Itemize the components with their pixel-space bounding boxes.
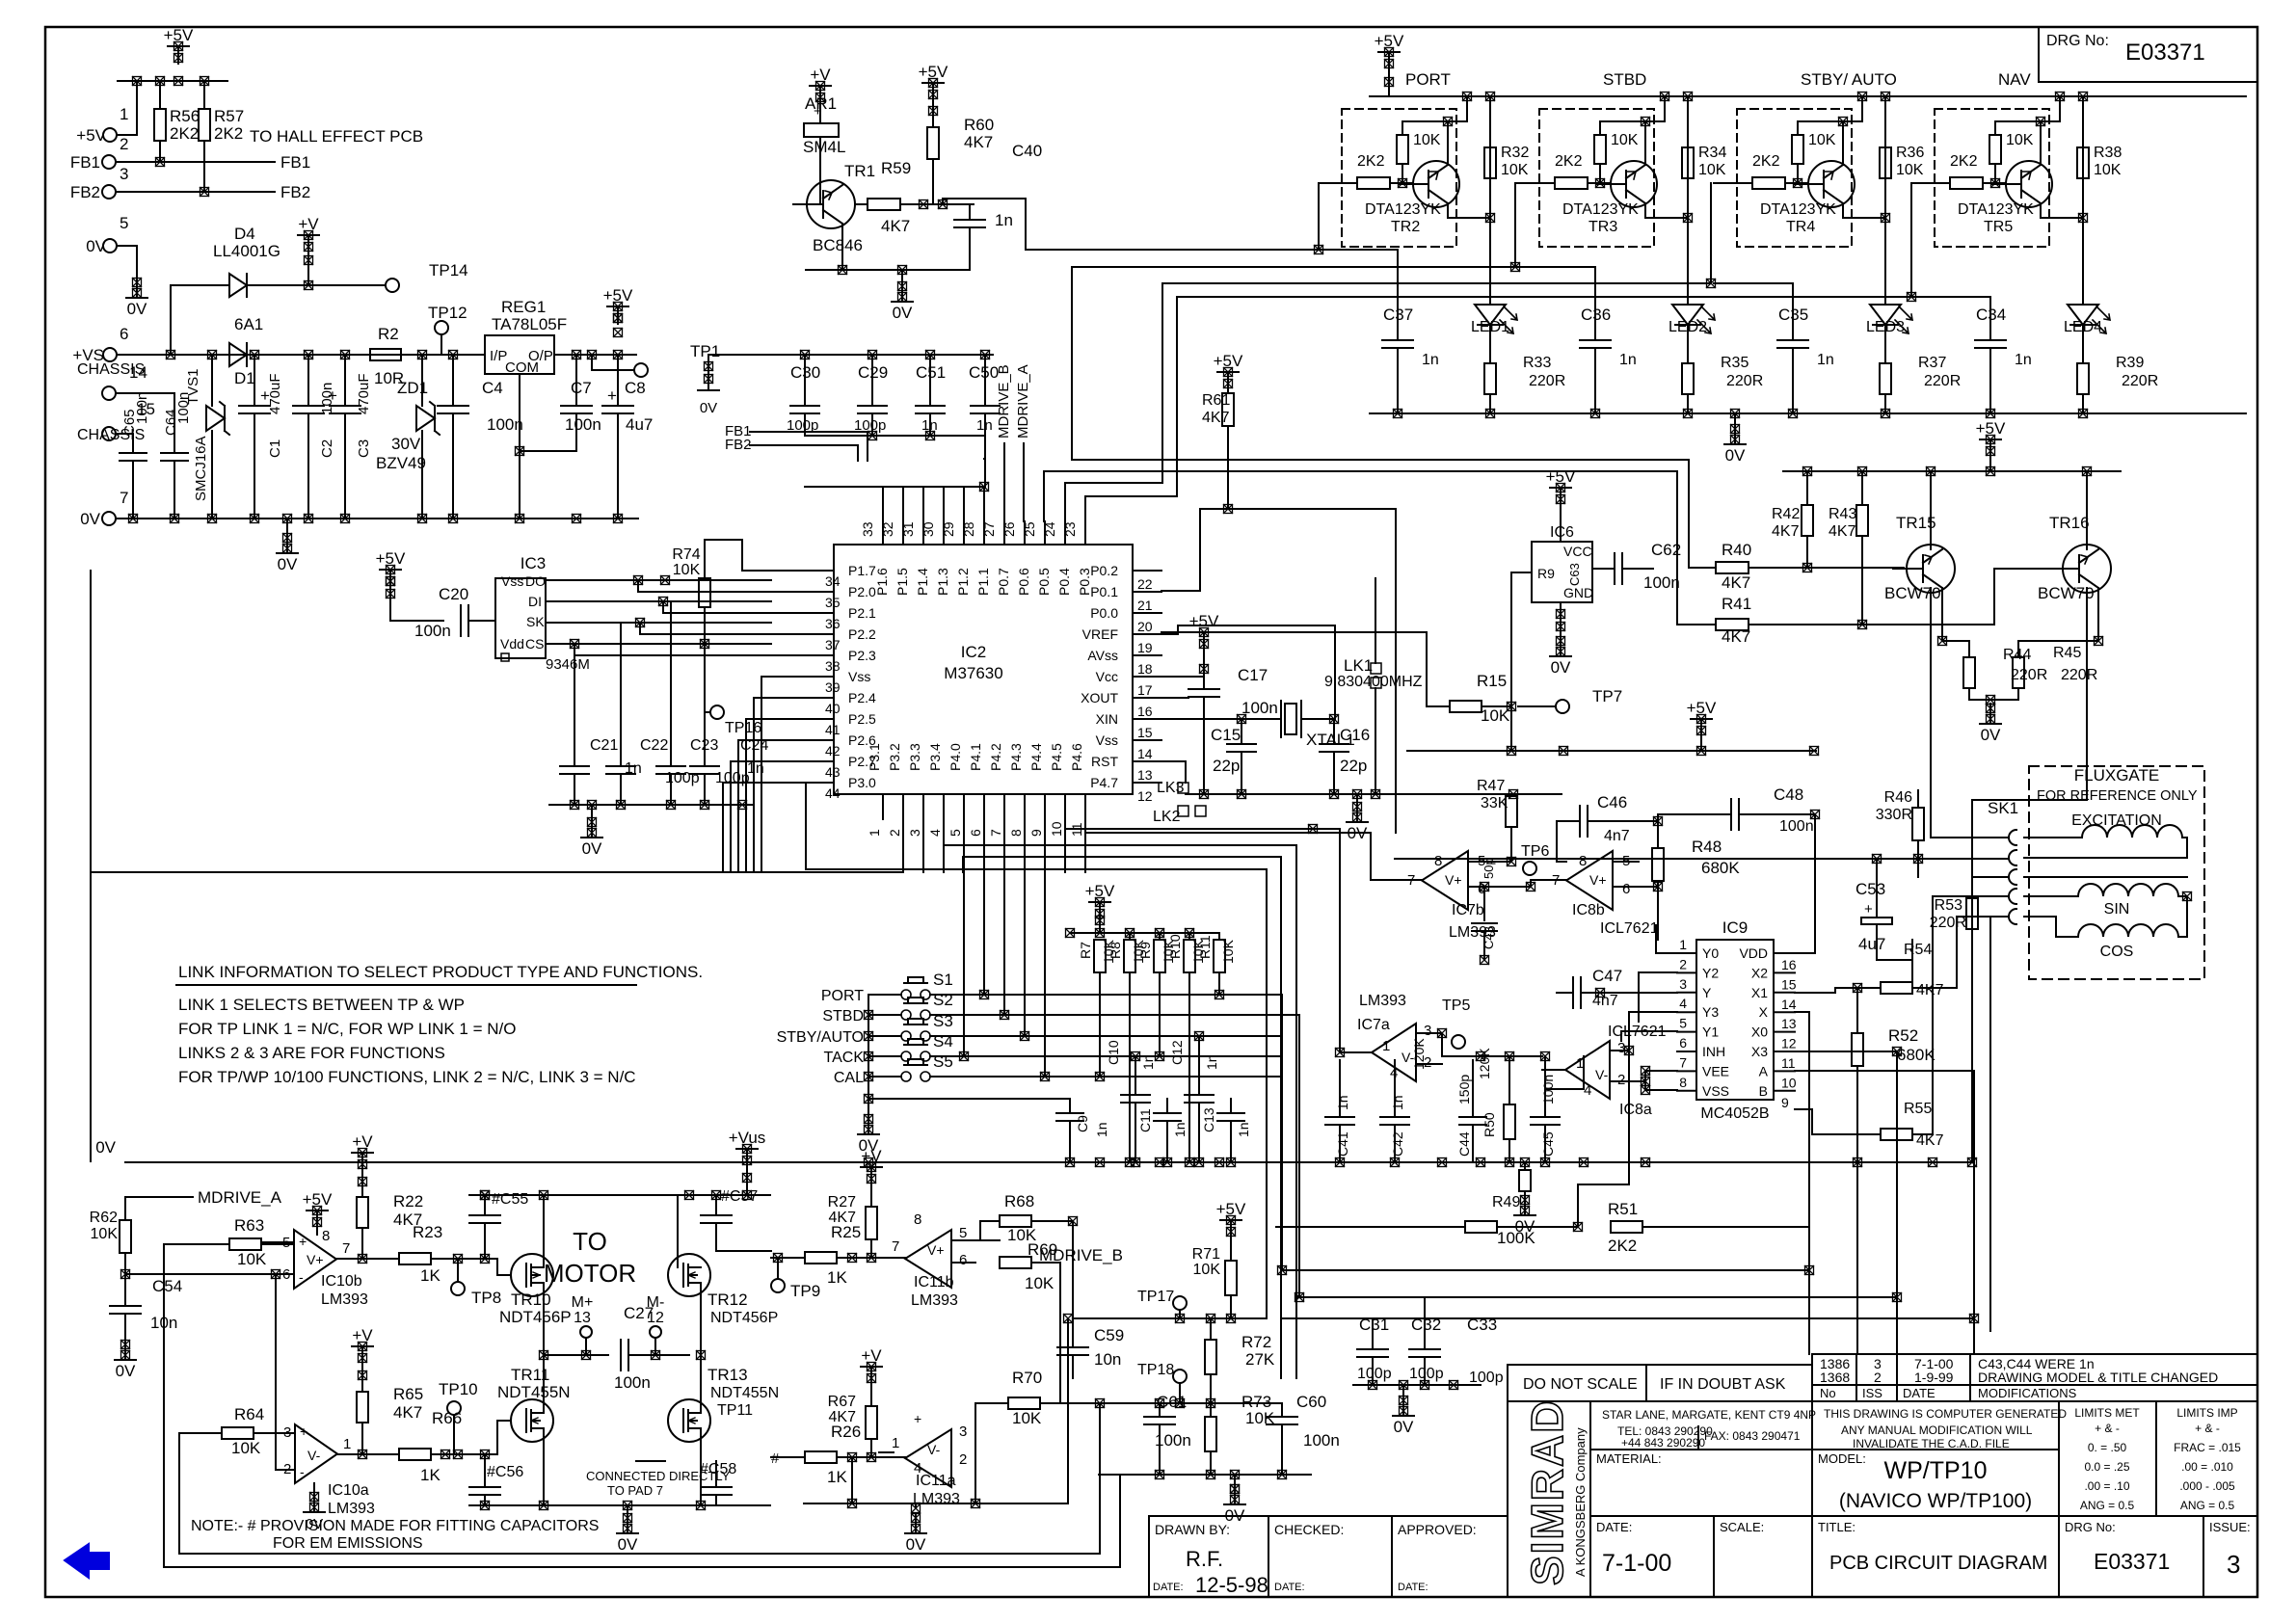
svg-text:R42: R42 (1772, 506, 1800, 522)
svg-text:.00 = .10: .00 = .10 (2084, 1479, 2129, 1493)
svg-text:1n: 1n (995, 211, 1013, 229)
svg-text:R46: R46 (1884, 789, 1912, 806)
svg-text:V-: V- (927, 1442, 941, 1457)
svg-text:C63: C63 (1567, 563, 1582, 586)
wire row to IC8a (1442, 1055, 1542, 1057)
resistor 10K base pullup TR4 (1797, 121, 1799, 135)
wire left pin routes from IC2 (705, 540, 771, 571)
pin SK1-5 (2009, 909, 2016, 924)
wire TR12 gate from right (716, 1250, 771, 1252)
svg-text:P1.4: P1.4 (915, 568, 930, 596)
svg-text:C47: C47 (1592, 967, 1622, 985)
svg-text:R2: R2 (378, 325, 399, 343)
svg-text:LM393: LM393 (1359, 993, 1406, 1009)
svg-text:33: 33 (860, 521, 875, 537)
svg-text:P4.2: P4.2 (988, 743, 1003, 771)
svg-text:#C57: #C57 (721, 1188, 758, 1205)
svg-text:SIMRAD: SIMRAD (1522, 1399, 1572, 1585)
pin 9 IC9 right (1774, 1090, 1795, 1092)
svg-text:TP11: TP11 (717, 1402, 753, 1419)
svg-text:VEE: VEE (1702, 1063, 1729, 1078)
svg-text:BC846: BC846 (813, 236, 863, 254)
wire gate TR11 (497, 1421, 511, 1454)
svg-text:10K: 10K (673, 562, 701, 578)
svg-text:TP8: TP8 (471, 1289, 501, 1307)
svg-text:M37630: M37630 (944, 664, 1002, 682)
svg-text:R8: R8 (1108, 942, 1123, 959)
svg-text:MODIFICATIONS: MODIFICATIONS (1978, 1386, 2077, 1400)
svg-text:43: 43 (825, 764, 841, 780)
wire caps to bus2 (805, 435, 985, 437)
wire trunk risers to LED drive lines (1319, 249, 1398, 251)
svg-text:4n7: 4n7 (1604, 828, 1630, 844)
svg-text:220R: 220R (2061, 667, 2097, 683)
pin 3 IC2 bottom (922, 794, 924, 819)
svg-text:NDT456P: NDT456P (710, 1310, 778, 1326)
svg-text:BCW70: BCW70 (2038, 584, 2095, 602)
svg-text:P0.6: P0.6 (1016, 568, 1031, 596)
svg-text:TO PAD 7: TO PAD 7 (607, 1483, 663, 1498)
svg-text:MODEL:: MODEL: (1818, 1451, 1866, 1466)
svg-text:R23: R23 (413, 1223, 442, 1241)
svg-text:TR12: TR12 (707, 1290, 748, 1309)
svg-text:0V: 0V (582, 839, 602, 858)
wire row S5 (868, 1076, 901, 1078)
svg-text:P0.0: P0.0 (1090, 605, 1118, 621)
svg-text:C1: C1 (267, 439, 283, 458)
svg-text:22p: 22p (1213, 757, 1240, 775)
pin 13 IC2 right (1133, 760, 1161, 762)
svg-text:V+: V+ (1589, 872, 1607, 888)
switch S4 (901, 1051, 911, 1061)
resistor 100K feedback (1465, 1221, 1497, 1233)
transistor TR11 NDT455N mosfet (511, 1399, 553, 1442)
svg-text:1K: 1K (827, 1268, 847, 1287)
svg-text:4K7: 4K7 (829, 1210, 857, 1226)
svg-text:R67: R67 (828, 1394, 856, 1410)
svg-text:+: + (300, 1423, 307, 1439)
svg-text:R50: R50 (1482, 1112, 1497, 1137)
svg-text:DATE: DATE (1903, 1386, 1936, 1400)
ground 0V below caps (591, 805, 593, 817)
svg-text:10K: 10K (2006, 132, 2034, 148)
pin 10 IC2 bottom (1064, 794, 1066, 819)
svg-text:10K: 10K (1012, 1409, 1042, 1427)
svg-text:ZD1: ZD1 (397, 379, 428, 397)
svg-text:TP6: TP6 (1521, 843, 1549, 860)
svg-text:C31: C31 (1359, 1316, 1389, 1334)
wire AVss loop over crystal (1161, 625, 1335, 719)
svg-text:1: 1 (343, 1436, 351, 1452)
svg-text:P1.5: P1.5 (894, 568, 910, 596)
svg-text:0V: 0V (1981, 726, 2001, 744)
revision table (1812, 1354, 2257, 1401)
svg-text:8: 8 (322, 1228, 330, 1244)
svg-text:C11: C11 (1137, 1108, 1153, 1132)
svg-text:1n: 1n (976, 417, 993, 434)
pin 29 IC2 top (963, 521, 965, 545)
wire from top-left corner trunk (1622, 568, 1653, 570)
svg-text:19: 19 (1137, 640, 1153, 655)
svg-text:S1: S1 (933, 971, 953, 989)
svg-text:TP7: TP7 (1592, 687, 1622, 705)
pin 33 IC2 top (882, 521, 884, 545)
svg-text:39: 39 (825, 679, 841, 695)
pin 6 IC9 left (1677, 1051, 1696, 1052)
svg-text:R59: R59 (881, 159, 911, 177)
svg-text:100n: 100n (1643, 573, 1680, 592)
switch S2 (901, 1010, 911, 1020)
svg-text:ICL7621: ICL7621 (1600, 920, 1659, 937)
svg-text:Vdd: Vdd (500, 636, 524, 652)
svg-text:IC8a: IC8a (1619, 1102, 1652, 1118)
test point TP12 (435, 321, 448, 334)
wire LED column 2 (1687, 96, 1689, 305)
svg-text:X1: X1 (1751, 985, 1768, 1000)
svg-text:DO: DO (525, 573, 546, 589)
svg-text:25: 25 (1022, 521, 1037, 537)
wire IC9 VEE VSS left (1645, 1070, 1677, 1072)
svg-text:FB2: FB2 (70, 183, 100, 201)
svg-text:7: 7 (342, 1240, 350, 1257)
svg-text:4K7: 4K7 (829, 1409, 857, 1425)
svg-text:VSS: VSS (1702, 1083, 1729, 1099)
svg-text:12: 12 (1137, 788, 1153, 804)
svg-text:100n: 100n (134, 392, 150, 424)
svg-text:FRAC = .015: FRAC = .015 (2174, 1441, 2241, 1454)
wire IC8a pins (1542, 1069, 1565, 1071)
resistor R37 220R (1884, 325, 1886, 363)
resistor R32 10K (1484, 147, 1496, 178)
test point TP9 (771, 1279, 785, 1292)
wire row 1456 (1060, 1402, 1282, 1404)
svg-text:C46: C46 (1597, 793, 1627, 811)
resistor 10K base pullup TR5 (1994, 121, 1996, 135)
svg-text:100n: 100n (565, 415, 601, 434)
svg-text:X: X (1759, 1004, 1769, 1020)
svg-text:TP14: TP14 (429, 261, 468, 279)
wire TR16 collector down (2086, 588, 2088, 800)
svg-text:C22: C22 (640, 737, 668, 754)
svg-text:18: 18 (1137, 661, 1153, 677)
ground 0V xtal (1356, 794, 1358, 802)
svg-text:330R: 330R (1876, 807, 1912, 823)
resistor R10 10K (1188, 933, 1190, 940)
svg-text:.00 = .010: .00 = .010 (2181, 1460, 2233, 1474)
svg-text:MC4052B: MC4052B (1700, 1105, 1769, 1122)
wire row S3 (868, 1035, 901, 1037)
svg-text:XIN: XIN (1096, 711, 1118, 727)
svg-text:0V: 0V (116, 1362, 136, 1380)
wire LED column 4 (2082, 96, 2084, 305)
svg-text:2K2: 2K2 (1608, 1237, 1637, 1255)
svg-text:C23: C23 (690, 737, 718, 754)
svg-text:10K: 10K (1896, 162, 1924, 178)
svg-text:2K2: 2K2 (1555, 153, 1583, 170)
wire IC8b pins (1531, 879, 1566, 881)
svg-text:8: 8 (1579, 853, 1587, 869)
svg-text:1n: 1n (1619, 352, 1637, 368)
svg-text:TR5: TR5 (1984, 219, 2013, 235)
svg-text:C4: C4 (482, 379, 503, 397)
svg-text:SK1: SK1 (1988, 799, 2018, 817)
wire LED top rail (1370, 95, 2246, 97)
resistor R53 220R (1966, 898, 1978, 929)
svg-text:17: 17 (1137, 682, 1153, 698)
wire opamp +5V rail (1407, 750, 1816, 752)
svg-text:0V: 0V (1725, 446, 1746, 465)
pin 7 IC9 left (1677, 1070, 1696, 1072)
pin 40 IC2 left (771, 697, 834, 699)
svg-text:R54: R54 (1904, 942, 1932, 958)
svg-text:R57: R57 (214, 107, 244, 125)
resistor R11 10K (1218, 933, 1220, 940)
svg-text:100n: 100n (487, 415, 523, 434)
svg-text:Vss: Vss (501, 573, 523, 589)
svg-text:1K: 1K (420, 1266, 441, 1285)
svg-text:10K: 10K (1501, 162, 1529, 178)
svg-text:R36: R36 (1896, 145, 1924, 161)
svg-text:R37: R37 (1918, 355, 1946, 371)
svg-text:C15: C15 (1211, 726, 1241, 744)
pin 14 IC9 right (1774, 992, 1795, 994)
svg-text:0V: 0V (700, 400, 717, 416)
svg-text:1n: 1n (1236, 1122, 1251, 1137)
svg-text:0V: 0V (906, 1535, 926, 1554)
svg-text:DTA123YK: DTA123YK (1958, 201, 2034, 218)
wire IC7b pins (1371, 879, 1422, 881)
svg-text:MDRIVE_A: MDRIVE_A (198, 1188, 282, 1207)
svg-text:R48: R48 (1692, 838, 1722, 856)
pin 17 IC2 right (1133, 676, 1161, 678)
wire switch common bus (868, 995, 869, 1114)
svg-text:IC3: IC3 (521, 554, 546, 572)
ground 0V R49 (1521, 1196, 1530, 1205)
svg-text:6: 6 (968, 829, 983, 837)
svg-text:R65: R65 (393, 1385, 423, 1403)
svg-text:C43: C43 (1482, 926, 1496, 949)
dashed box TR4 (1737, 109, 1852, 247)
svg-text:1-9-99: 1-9-99 (1914, 1370, 1954, 1385)
svg-text:R66: R66 (432, 1409, 462, 1427)
svg-text:DI: DI (528, 594, 542, 609)
svg-text:BZV49: BZV49 (376, 454, 426, 472)
svg-text:P4.4: P4.4 (1028, 743, 1044, 771)
svg-text:PCB CIRCUIT DIAGRAM: PCB CIRCUIT DIAGRAM (1829, 1553, 2047, 1574)
svg-text:31: 31 (900, 521, 916, 537)
svg-text:1368: 1368 (1820, 1370, 1850, 1385)
svg-text:S5: S5 (933, 1052, 953, 1071)
svg-text:7: 7 (988, 829, 1003, 837)
ground 0V IC10a (313, 1483, 315, 1492)
svg-text:13: 13 (1137, 767, 1153, 783)
svg-text:8: 8 (1434, 853, 1442, 869)
svg-text:IC6: IC6 (1550, 524, 1574, 541)
svg-text:15: 15 (1137, 725, 1153, 740)
svg-text:XOUT: XOUT (1081, 690, 1118, 705)
wire verticals to title area (1808, 1227, 1810, 1354)
svg-text:10K: 10K (1413, 132, 1441, 148)
svg-text:3: 3 (283, 1424, 291, 1441)
wire IC10a out (336, 1453, 399, 1455)
svg-text:COM: COM (505, 359, 539, 376)
wire IC11a out (879, 1451, 894, 1453)
svg-text:0.0 = .25: 0.0 = .25 (2084, 1460, 2129, 1474)
svg-text:LK2: LK2 (1153, 809, 1181, 825)
svg-text:APPROVED:: APPROVED: (1398, 1522, 1477, 1537)
svg-text:10n: 10n (1094, 1350, 1121, 1369)
switch S1 (901, 990, 911, 999)
svg-text:R34: R34 (1698, 145, 1726, 161)
pin SK1-2 (2009, 850, 2016, 865)
svg-text:P3.4: P3.4 (927, 743, 943, 771)
wire pin44 route (723, 783, 771, 872)
svg-text:TO HALL EFFECT PCB: TO HALL EFFECT PCB (250, 127, 423, 146)
resistor R57 2K2 (199, 109, 210, 141)
pin 5 IC9 left (1677, 1031, 1696, 1033)
transistor TR3 DTA123YK PNP (1611, 161, 1657, 207)
svg-text:INVALIDATE THE C.A.D. FILE: INVALIDATE THE C.A.D. FILE (1853, 1437, 2010, 1450)
svg-text:32: 32 (880, 521, 895, 537)
wire SK1 pin2 line (1395, 858, 2009, 860)
wire resistor array rail (1070, 932, 1219, 934)
svg-text:7: 7 (120, 489, 128, 507)
svg-text:20: 20 (1137, 619, 1153, 634)
svg-text:12-5-98: 12-5-98 (1195, 1573, 1268, 1597)
svg-text:10K: 10K (1220, 939, 1236, 964)
svg-text:P1.3: P1.3 (935, 568, 950, 596)
svg-text:Y2: Y2 (1702, 965, 1719, 980)
svg-text:2K2: 2K2 (1950, 153, 1978, 170)
wire IC11b out route (1072, 1221, 1074, 1318)
dashed box FLUXGATE (2029, 766, 2204, 979)
svg-text:22: 22 (1137, 576, 1153, 592)
svg-text:4K7: 4K7 (1722, 627, 1750, 646)
wire motor bottom rail (469, 1504, 770, 1506)
wire TR13 gate (636, 1460, 665, 1462)
svg-text:C59: C59 (1094, 1326, 1124, 1344)
ground 0V LED rail (1734, 413, 1736, 424)
test point TP7 (1556, 700, 1569, 713)
wire IC2 top pin columns (882, 487, 884, 521)
svg-text:12: 12 (1781, 1036, 1797, 1051)
svg-text:LL4001G: LL4001G (213, 242, 280, 260)
svg-text:2: 2 (1617, 1072, 1625, 1088)
svg-text:-: - (299, 1269, 304, 1285)
svg-text:R44: R44 (2003, 647, 2031, 663)
svg-text:C48: C48 (1774, 785, 1803, 804)
capacitor C7 100n (575, 355, 577, 406)
pin 2 IC2 bottom (902, 794, 904, 819)
dashed box TR3 (1539, 109, 1654, 247)
svg-text:S3: S3 (933, 1012, 953, 1030)
svg-text:1: 1 (1382, 1038, 1390, 1054)
svg-text:40: 40 (825, 701, 841, 716)
svg-text:1: 1 (867, 829, 882, 837)
svg-text:R43: R43 (1829, 506, 1856, 522)
svg-text:STBD: STBD (1603, 70, 1646, 89)
svg-text:4: 4 (927, 829, 943, 837)
transistor TR4 DTA123YK PNP (1808, 161, 1855, 207)
svg-text:10: 10 (1781, 1075, 1797, 1090)
svg-text:150p: 150p (1456, 1075, 1472, 1104)
svg-text:.000 - .005: .000 - .005 (2179, 1479, 2235, 1493)
svg-text:Vcc: Vcc (1096, 669, 1118, 684)
pin 41 IC2 left (771, 718, 834, 720)
wire row S4 (868, 1055, 901, 1057)
coil COS (2024, 917, 2078, 937)
svg-text:4K7: 4K7 (1202, 410, 1230, 426)
svg-text:DTA123YK: DTA123YK (1760, 201, 1836, 218)
svg-text:680K: 680K (1701, 859, 1740, 877)
wire LED bottom rail (1370, 412, 2246, 414)
svg-text:VCC: VCC (1563, 544, 1592, 559)
wire C31 C32 ground row (1353, 1384, 1481, 1386)
svg-text:4: 4 (1584, 1082, 1591, 1099)
svg-text:14: 14 (129, 363, 147, 382)
svg-text:S2: S2 (933, 991, 953, 1009)
svg-text:TP1: TP1 (690, 342, 720, 360)
svg-text:+: + (299, 1234, 307, 1249)
svg-text:10K: 10K (91, 1226, 119, 1242)
svg-text:9: 9 (1028, 829, 1044, 837)
svg-text:COS: COS (2100, 944, 2134, 960)
wire R7 bottom to S5 row (1099, 972, 1101, 1077)
svg-text:4: 4 (1390, 1065, 1398, 1081)
pin 6 IC2 bottom (983, 794, 985, 819)
svg-text:220R: 220R (2122, 373, 2158, 389)
resistor R39 220R (2082, 325, 2084, 363)
svg-text:FOR TP/WP 10/100 FUNCTIONS, LI: FOR TP/WP 10/100 FUNCTIONS, LINK 2 = N/C… (178, 1068, 636, 1086)
svg-text:R15: R15 (1477, 672, 1507, 690)
wire TR15 rail (1783, 470, 2121, 472)
ground 0V IC11 (915, 1503, 917, 1508)
svg-text:P3.2: P3.2 (887, 743, 902, 771)
svg-text:MDRIVE_B: MDRIVE_B (996, 364, 1012, 439)
svg-text:2: 2 (887, 829, 902, 837)
svg-text:NAV: NAV (1998, 70, 2031, 89)
svg-text:P4.5: P4.5 (1049, 743, 1064, 771)
pin 34 IC2 left (771, 570, 834, 572)
pin 22 IC2 right (1133, 570, 1161, 572)
svg-text:C13: C13 (1201, 1107, 1216, 1132)
svg-text:220R: 220R (1726, 373, 1763, 389)
svg-text:X2: X2 (1751, 965, 1768, 980)
svg-text:P1.2: P1.2 (955, 568, 971, 596)
pin 16 IC9 right (1774, 952, 1795, 954)
svg-text:FB2: FB2 (280, 183, 310, 201)
IC IC9 MC4052B (1696, 940, 1774, 1100)
resistor R8 10K (1129, 933, 1131, 940)
pin 31 IC2 top (922, 521, 924, 545)
capacitor C4 100n (452, 355, 454, 406)
blue arrow marker (65, 1544, 109, 1578)
svg-text:C50: C50 (969, 363, 999, 382)
LED LED3 (1870, 305, 1901, 325)
svg-text:TO: TO (573, 1227, 607, 1256)
svg-text:MATERIAL:: MATERIAL: (1596, 1451, 1662, 1466)
svg-text:R38: R38 (2094, 145, 2122, 161)
transistor TR13 NDT455N mosfet (668, 1399, 710, 1442)
svg-text:P1.1: P1.1 (975, 568, 991, 596)
svg-text:C44: C44 (1456, 1131, 1472, 1157)
svg-text:100n: 100n (1779, 818, 1814, 835)
svg-text:INH: INH (1702, 1044, 1725, 1059)
svg-text:S4: S4 (933, 1032, 953, 1051)
svg-text:R70: R70 (1012, 1369, 1042, 1387)
wire TR16 emitter (2097, 588, 2099, 641)
svg-text:470uF: 470uF (356, 373, 372, 414)
